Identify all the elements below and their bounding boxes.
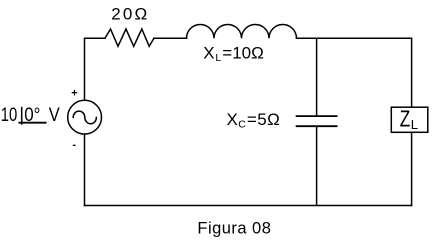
ac source sine wave — [73, 111, 96, 124]
ac source V1 circle — [68, 100, 102, 134]
wire capacitor branch upper — [316, 38, 318, 116]
wire inductor to top-right corner — [297, 37, 412, 39]
svg-text:0°: 0° — [24, 105, 40, 126]
svg-text:X: X — [203, 43, 214, 62]
capacitor C1 top plate — [297, 115, 337, 117]
svg-text:=5Ω: =5Ω — [247, 110, 280, 129]
resistor R1 20ohm zigzag — [105, 29, 154, 46]
svg-text:-: - — [72, 139, 76, 151]
svg-text:20Ω: 20Ω — [111, 5, 147, 24]
svg-text:+: + — [71, 88, 77, 100]
load box ZL — [391, 107, 428, 132]
capacitor C1 bottom plate — [297, 125, 337, 127]
svg-text:L: L — [411, 117, 418, 132]
wire left vertical and top-left segment — [85, 38, 106, 100]
angle symbol underline — [19, 122, 47, 124]
wire resistor to inductor — [154, 37, 187, 39]
wire capacitor branch lower — [316, 126, 318, 205]
svg-text:Figura 08: Figura 08 — [197, 219, 271, 237]
svg-text:V: V — [49, 105, 60, 126]
svg-text:L: L — [215, 52, 221, 64]
wire right vertical lower — [411, 132, 413, 205]
angle symbol vertical stroke — [21, 107, 23, 125]
wire right vertical upper — [411, 38, 413, 107]
svg-text:Z: Z — [400, 105, 411, 131]
inductor L1 XL arcs — [187, 24, 297, 38]
svg-text:10: 10 — [1, 105, 18, 126]
wire bottom horizontal — [85, 205, 412, 207]
wire source bottom vertical — [84, 134, 86, 206]
svg-text:X: X — [227, 110, 238, 129]
svg-text:=10Ω: =10Ω — [222, 43, 264, 62]
svg-text:C: C — [238, 118, 246, 130]
